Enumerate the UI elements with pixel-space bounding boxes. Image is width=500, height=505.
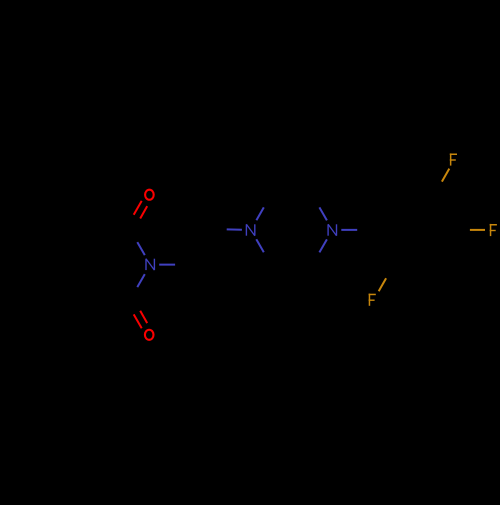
bond N4p-C5p (blue half) [319,239,327,252]
bond F3-C3q (gold half) [442,169,449,182]
bond F6-C6q (gold half) [379,278,386,291]
bond N1p-C2p (blue half) [256,207,263,220]
bond N2-C1 (blue half) [137,242,145,255]
atom label O1 (top carbonyl O) [145,190,154,200]
bond N4p-C3p (blue half) [319,207,327,220]
bond N4p-C1q (blue half) [341,229,357,231]
double bond C1=O1 line b (red half) [134,201,142,215]
atom label N4p (piperazine N4) [328,224,336,235]
atom label N2 (imide N) [146,259,154,270]
bond F4-C4q (gold half) [470,229,485,231]
bond N2-C3 (blue half) [137,274,145,287]
bond CH2b-N1p (blue half) [227,228,242,230]
atom label N1p (piperazine N1) [246,224,254,235]
double bond C1=O1 line a (red half) [140,206,147,218]
double bond C3=O3 line b (red half) [140,311,147,323]
atom label O3 (bottom carbonyl O) [145,330,154,340]
atom label F4 (right fluorine) [490,224,497,236]
bond N2-CH2a (blue half) [159,264,175,266]
atom label F6 (bottom fluorine) [369,294,376,306]
double bond C3=O3 line a (red half) [134,314,142,328]
atom label F3 (top fluorine) [450,153,457,165]
bond N1p-C6p (blue half) [256,239,264,252]
